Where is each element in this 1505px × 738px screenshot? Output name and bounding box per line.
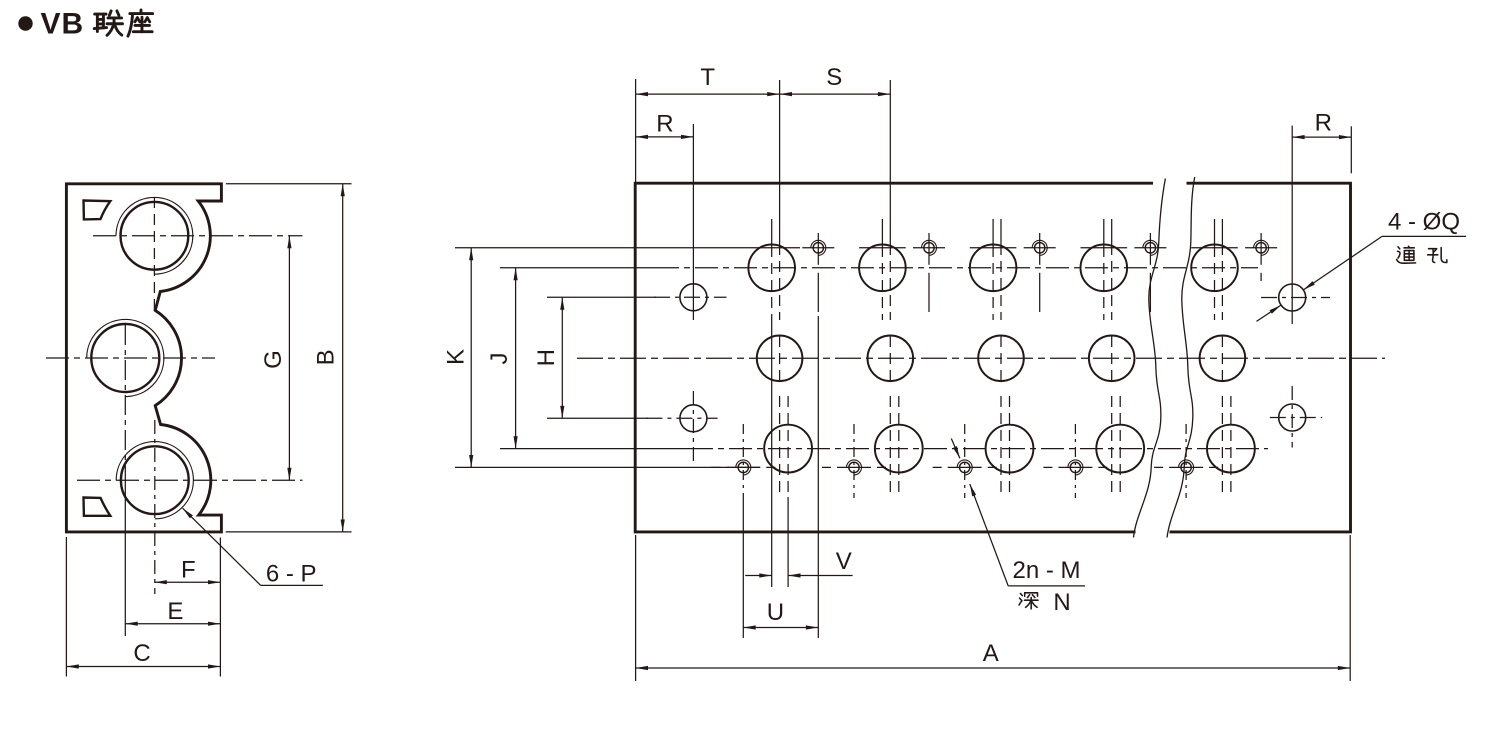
bottom row centerline / dim J extension bottom [500,448,690,450]
svg-text:H: H [533,349,560,366]
dim C extension left [65,537,67,677]
station 4 bottom thread hole cross [1043,466,1107,468]
through hole Q bottom-left vertical [692,391,694,462]
dim T extension left / R extension left [635,79,637,184]
svg-text:T: T [700,64,715,91]
centerline bottom port vertical / F extension [154,420,156,594]
dim U line [743,627,818,629]
station 1 vertical centerlines [771,219,773,246]
station 3 bottom thread hole cross [933,466,997,468]
station 5 vertical centerlines [1214,219,1216,246]
dim K line [470,248,472,468]
svg-text:E: E [167,598,183,625]
station 1 valve port top circle [748,244,795,291]
svg-text:K: K [443,349,470,365]
station 3 top thread hole cross [1024,247,1056,249]
dim F/E/C extension right [219,538,221,677]
leader 2n-M underline [1008,585,1085,587]
left view body outline [66,184,221,532]
dim B extension top [226,183,352,185]
dim R line left [636,136,694,138]
station 5 top circle chord line [1191,247,1238,249]
dim E line [125,623,220,625]
through hole Q bottom-left [680,405,707,432]
through hole Q bottom-left horizontal centerline [646,417,717,419]
svg-text:R: R [1315,110,1332,137]
dim A extension left [635,535,637,681]
leader 6-P underline [261,584,323,586]
dim U extension left (bottom thread hole 1) [742,498,744,638]
station 1 bottom thread hole cross [711,466,775,468]
station 1 bottom thread hole 2n-M [738,462,748,472]
middle row centerline [577,357,1385,359]
centerline bottom port horizontal [77,479,302,481]
dim T/S extension line station 1 [779,80,781,219]
dim H extension top [547,296,656,298]
leader 4-Q arrow [1303,236,1382,290]
dim V line left part [745,575,772,577]
station 4 valve port middle circle [1089,336,1135,382]
through hole Q bottom-right [1279,404,1306,431]
dim T line [636,93,780,95]
station 1 top thread hole cross [802,247,834,249]
leader 2n-M lower arrow [970,484,1008,586]
station 2 bottom thread hole cross [822,466,886,468]
plate outline left piece [635,183,1153,532]
title bullet [18,16,32,30]
dim A line [636,667,1351,669]
svg-text:J: J [486,353,513,365]
svg-text:B: B [313,349,340,365]
left view port P2 (middle) [91,324,159,392]
station 4 top thread hole cross [1134,247,1166,249]
station 4 top circle chord line [1081,247,1128,249]
dim J line [515,268,517,449]
break wavy line left [1134,179,1166,538]
dim A extension right [1349,535,1351,681]
top row centerline / dim J extension top [500,267,656,269]
svg-text:VB: VB [41,8,85,41]
label shen N [1019,593,1038,609]
station 4 bottom thread hole 2n-M [1070,462,1080,472]
dim B line [342,184,344,532]
dim C line [66,666,220,668]
leader 6-P arrow [183,508,261,585]
svg-text:4 - ØQ: 4 - ØQ [1388,209,1460,236]
station 2 top thread hole 2n-M [924,243,934,253]
centerline top port vertical [153,197,155,310]
through hole Q bottom-right horizontal centerline [1270,417,1322,419]
svg-text:R: R [656,110,673,137]
dim G line [288,236,290,480]
centerline top port horizontal [93,235,302,237]
left view port P1 (top) [120,202,188,270]
station 5 valve port bottom circle [1207,425,1255,473]
station 3 valve port top circle [970,244,1017,291]
dim V extension line (top circle centerline station 1) [771,320,773,587]
dim V line right part [788,575,853,577]
dim F line [154,581,220,583]
station 2 valve port bottom circle [875,425,923,473]
station 3 top thread hole 2n-M [1035,243,1045,253]
station 5 valve port top circle [1191,244,1238,291]
svg-text:U: U [767,599,784,626]
station 1 valve port middle circle [757,336,803,382]
station 5 bottom thread hole cross [1154,466,1218,468]
title text lian zuo [94,11,122,35]
station 5 bottom thread hole 2n-M [1181,462,1191,472]
dim K extension top (to first thread hole) [455,247,800,249]
station 3 top circle chord line [970,247,1017,249]
svg-text:N: N [1053,589,1070,616]
svg-text:V: V [836,548,852,575]
svg-text:6 - P: 6 - P [266,561,317,588]
station 3 valve port bottom circle [986,425,1034,473]
dim V extension line (bottom circle centerline station 1) [787,497,789,587]
svg-text:A: A [983,640,999,667]
svg-text:G: G [260,350,287,369]
station 3 bottom thread hole 2n-M [960,462,970,472]
through hole Q top-right vertical / dim R extension [1291,126,1293,324]
centerline middle port vertical / E extension [124,325,126,468]
through hole Q top-left horizontal centerline [654,296,727,298]
dim R extension right edge [1350,126,1352,173]
label tong kong [1397,246,1416,263]
station 4 valve port top circle [1081,244,1128,291]
dim H extension bottom [547,417,648,419]
left view port P3 (bottom) [121,446,189,514]
station 2 top circle chord line [859,247,906,249]
station 1 valve port bottom circle [764,425,812,473]
through hole Q top-left [680,284,707,311]
station 1 top thread hole 2n-M [813,243,823,253]
svg-text:F: F [181,557,196,584]
plate outline right piece [1170,183,1351,532]
station 3 vertical centerlines [992,219,994,246]
station 2 vertical centerlines [881,219,883,246]
svg-text:C: C [133,640,150,667]
station 4 vertical centerlines [1103,219,1105,246]
dim H line [561,297,563,418]
leader 4-Q underline [1382,235,1466,237]
station 2 top thread hole cross [913,247,945,249]
through hole Q bottom-right vertical [1291,386,1293,448]
station 5 top thread hole 2n-M [1256,243,1266,253]
dim S extension line station 2 [889,80,891,219]
svg-text:S: S [826,64,842,91]
station 3 valve port middle circle [978,336,1024,382]
station 2 valve port top circle [859,244,906,291]
dim S line [780,93,891,95]
left view top mounting slot [84,201,111,220]
through hole Q top-right [1279,284,1306,311]
leader 2n-M upper arrow [951,439,960,459]
break wavy line right [1167,177,1195,538]
station 5 top thread hole cross [1245,247,1277,249]
station 2 valve port middle circle [868,336,914,382]
svg-text:2n - M: 2n - M [1012,557,1080,584]
centerline middle port horizontal [46,357,215,359]
dim U extension right (top thread hole 1) [817,316,819,638]
through hole Q top-right horizontal centerline [1261,297,1330,299]
dim R line right [1292,136,1351,138]
dim B extension bottom [226,531,352,533]
leader 4-Q second arrow [1257,305,1282,321]
through hole Q top-left vertical / dim R extension [692,124,694,320]
station 4 top thread hole 2n-M [1145,243,1155,253]
dim K extension bottom (to first thread hole) [455,466,760,468]
station 4 valve port bottom circle [1096,425,1144,473]
left view bottom mounting slot [84,498,111,516]
station 5 valve port middle circle [1200,336,1246,382]
station 2 bottom thread hole 2n-M [849,462,859,472]
